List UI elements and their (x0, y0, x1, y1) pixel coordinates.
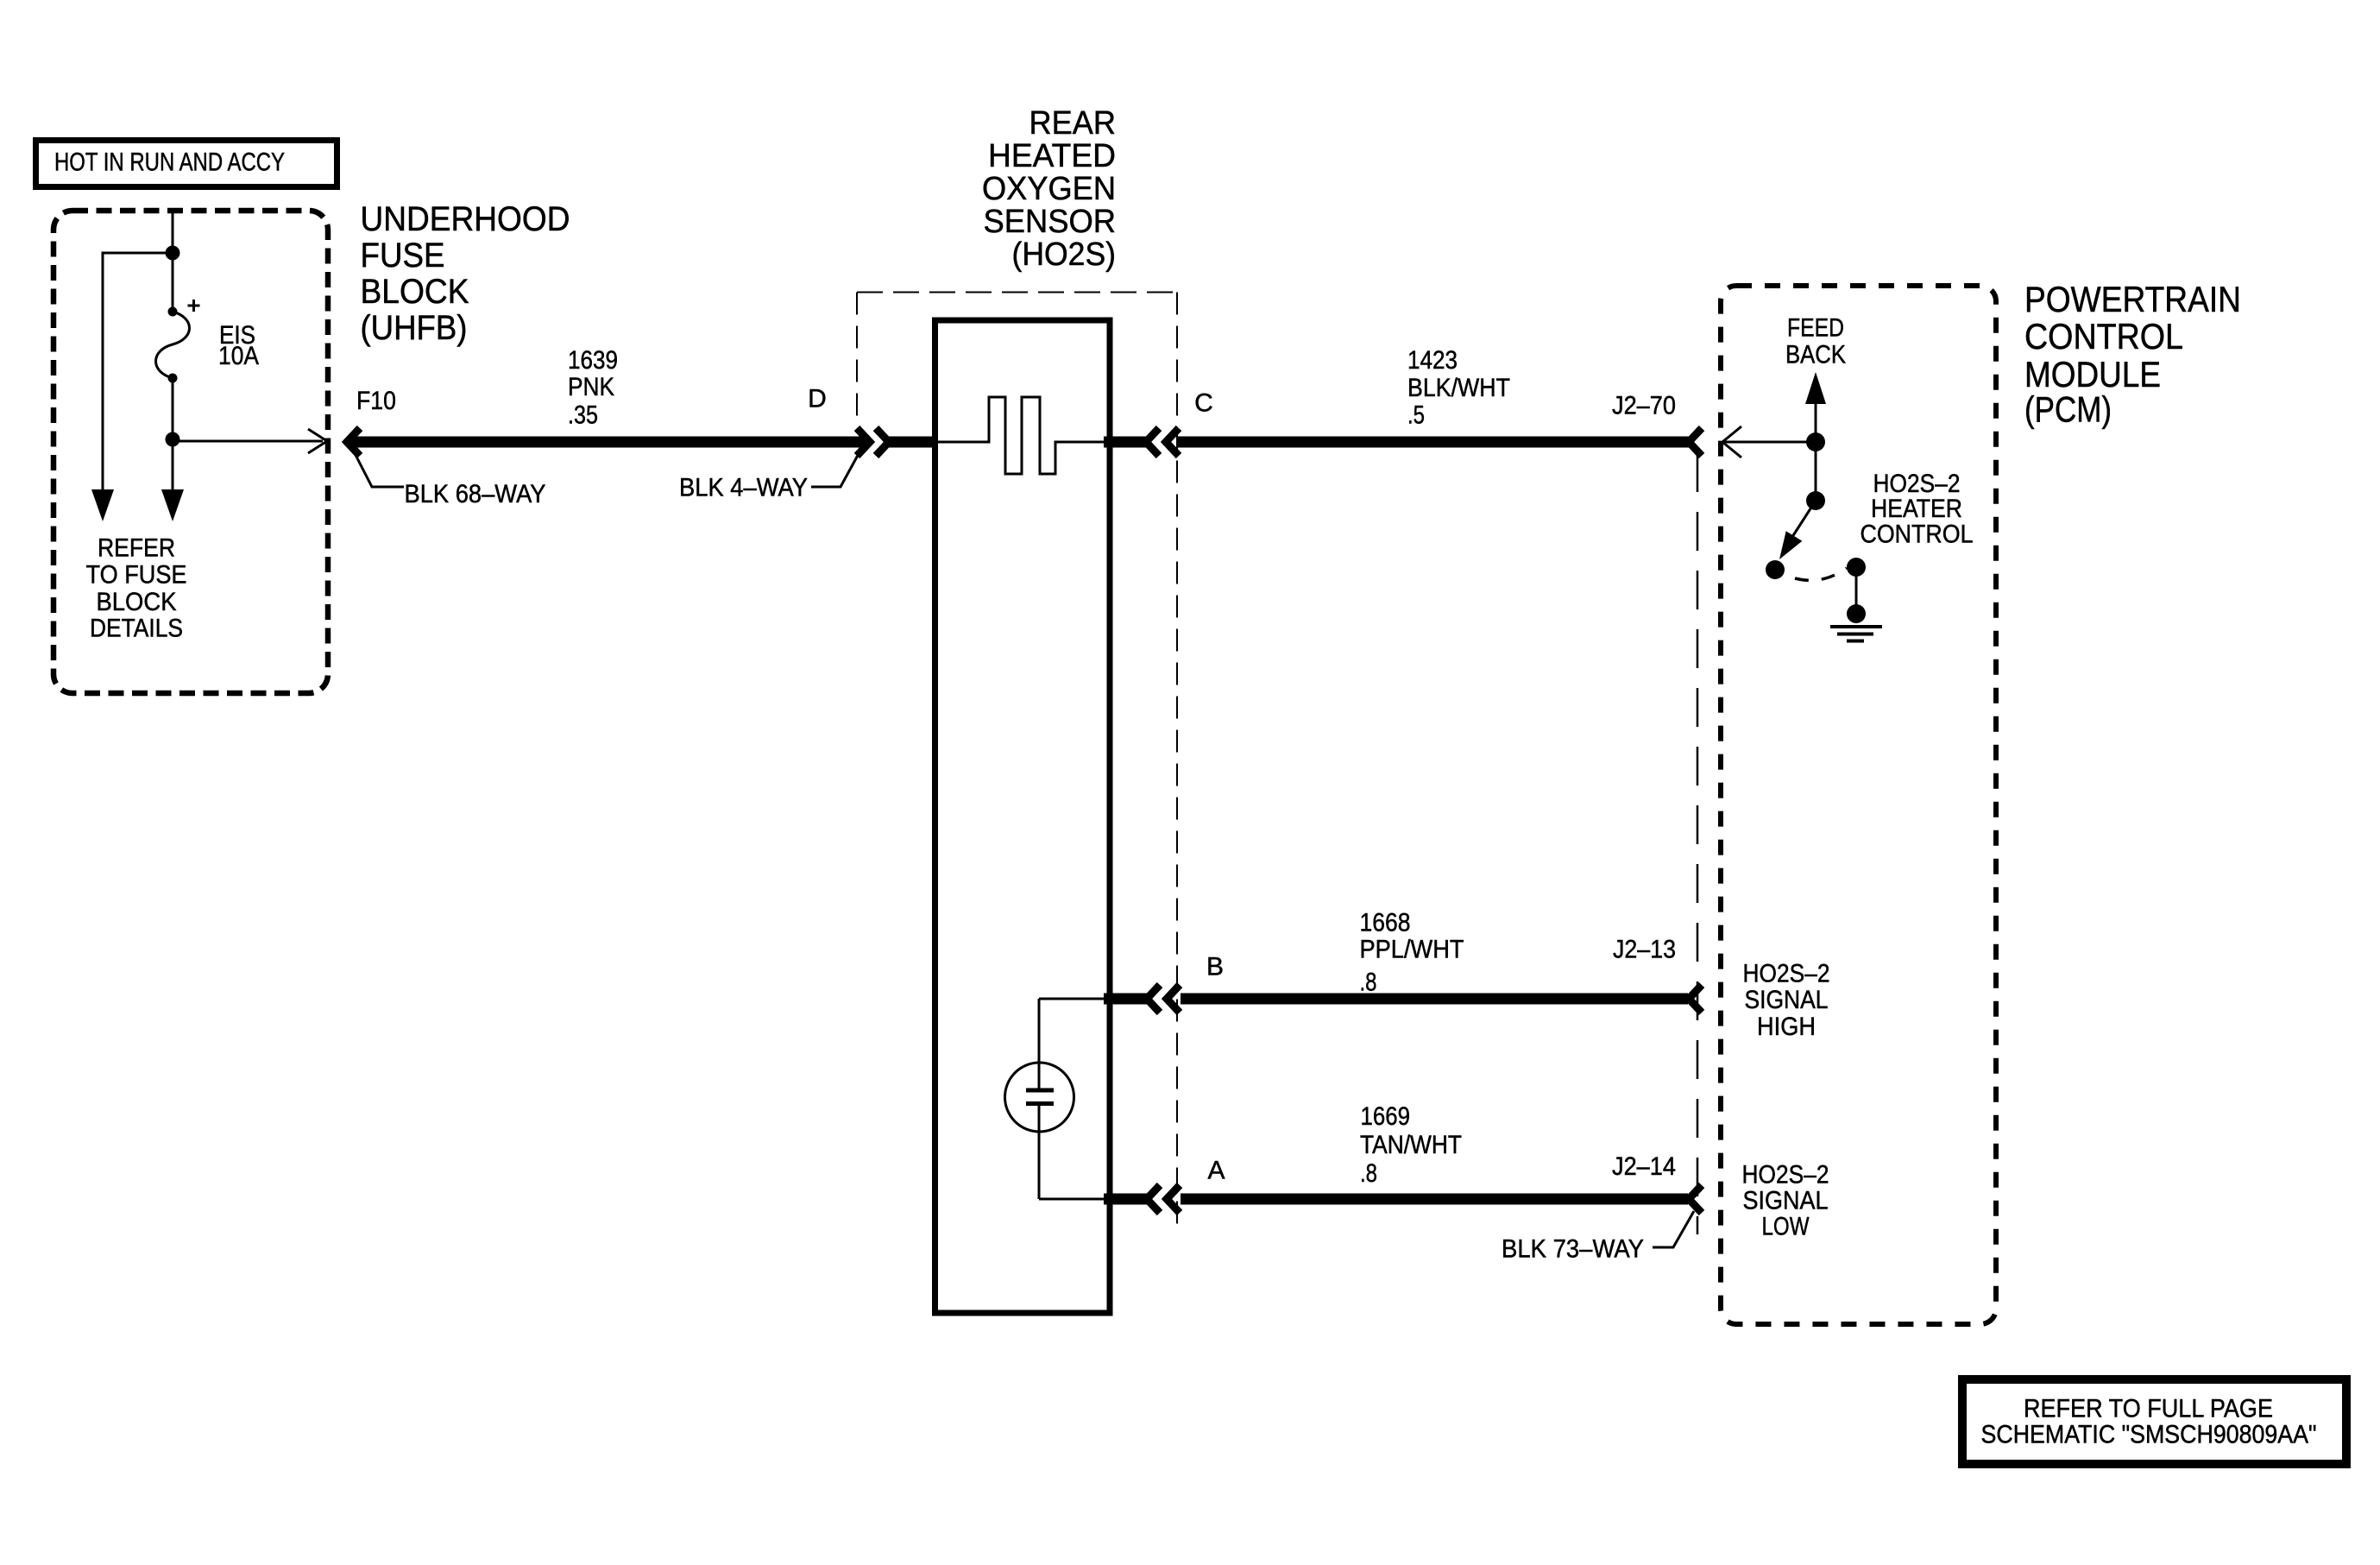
svg-text:FEED: FEED (1787, 314, 1844, 343)
svg-text:HIGH: HIGH (1757, 1013, 1816, 1041)
connector chevron at J2-13 (1689, 985, 1702, 1013)
connector chevrons at C (1146, 428, 1159, 456)
svg-text:POWERTRAIN: POWERTRAIN (2024, 279, 2241, 319)
svg-text:FUSE: FUSE (361, 237, 445, 275)
connector chevron at F10 (347, 428, 360, 456)
label HO2S-2 SIGNAL LOW (1742, 1161, 1829, 1241)
svg-text:J2–14: J2–14 (1612, 1152, 1676, 1181)
svg-text:(HO2S): (HO2S) (1012, 237, 1117, 273)
wire: sensor box to C (1104, 437, 1148, 448)
dashed arc of switch (1795, 568, 1847, 580)
svg-text:HOT IN RUN AND ACCY: HOT IN RUN AND ACCY (54, 148, 285, 177)
note box REFER TO FULL PAGE SCHEMATIC (1962, 1379, 2346, 1464)
svg-text:D: D (808, 385, 827, 413)
wire 1423 BLK/WHT .5 (1176, 437, 1689, 448)
ground (1830, 627, 1882, 641)
PCM dashed box (1721, 286, 1996, 1324)
node: switch pivot (1806, 491, 1825, 510)
svg-text:HEATER: HEATER (1871, 495, 1962, 523)
wire stub B (1104, 994, 1148, 1005)
label 1423 BLK/WHT .5 (1407, 346, 1510, 430)
svg-text:REAR: REAR (1029, 105, 1117, 142)
label HO2S-2 HEATER CONTROL (1861, 470, 1974, 549)
node: feedback junction (1806, 432, 1825, 451)
svg-text:LOW: LOW (1762, 1213, 1810, 1241)
svg-text:BLK 68–WAY: BLK 68–WAY (405, 480, 546, 508)
label 1639 PNK .35 (568, 346, 618, 430)
sensor box HO2S (935, 320, 1111, 1313)
wire: feedback arrow up (1815, 404, 1817, 442)
svg-text:SIGNAL: SIGNAL (1743, 1187, 1829, 1215)
wire D to sensor box (889, 437, 935, 448)
label BLK 4-WAY + leader (679, 451, 860, 502)
wire: junction to output arrow (173, 440, 323, 443)
svg-text:BLK 73–WAY: BLK 73–WAY (1502, 1235, 1644, 1264)
label BLK 68-WAY + leader (356, 455, 546, 508)
wire: battery top to B row (1039, 998, 1107, 1000)
label BLK 73-WAY + leader (1502, 1211, 1694, 1264)
label POWERTRAIN CONTROL MODULE (PCM) (2024, 279, 2241, 430)
label 1668 PPL/WHT .8 (1360, 909, 1464, 997)
node: switch contact right (1847, 558, 1866, 577)
battery symbol in sensor (1005, 999, 1074, 1199)
underhood fuse block dashed box (54, 211, 328, 693)
svg-text:PNK: PNK (568, 373, 614, 401)
wire: battery bottom to A row (1039, 1198, 1107, 1201)
svg-text:BLOCK: BLOCK (97, 588, 177, 616)
svg-text:HO2S–2: HO2S–2 (1743, 960, 1830, 988)
fuse EIS 10A (156, 300, 200, 383)
svg-text:OXYGEN: OXYGEN (982, 171, 1116, 207)
svg-text:10A: 10A (218, 342, 259, 370)
svg-text:.35: .35 (568, 401, 598, 430)
svg-text:C: C (1194, 389, 1213, 418)
svg-text:B: B (1206, 953, 1224, 981)
wire: left branch (103, 253, 173, 491)
node: lower junction (166, 432, 180, 447)
arrow: thin arrow into PCM (1722, 426, 1741, 458)
label REAR HEATED OXYGEN SENSOR (HO2S) (982, 105, 1116, 273)
svg-text:1423: 1423 (1407, 346, 1458, 375)
label UNDERHOOD FUSE BLOCK (UHFB) (361, 200, 570, 347)
connector chevrons at D (857, 428, 870, 456)
svg-text:CONTROL: CONTROL (2024, 316, 2183, 357)
wire 1668 PPL/WHT .8 (1181, 994, 1688, 1005)
label 1669 TAN/WHT .8 (1360, 1102, 1462, 1188)
svg-text:TAN/WHT: TAN/WHT (1360, 1131, 1462, 1159)
HO2S connector dashed boundary (857, 293, 1177, 1235)
svg-text:PPL/WHT: PPL/WHT (1360, 936, 1464, 964)
wire stub A (1104, 1194, 1148, 1205)
label HO2S-2 SIGNAL HIGH (1743, 960, 1830, 1042)
svg-text:J2–13: J2–13 (1613, 936, 1676, 964)
wire 1669 TAN/WHT .8 (1181, 1194, 1688, 1205)
svg-text:1639: 1639 (568, 346, 618, 375)
wire: fuse to lower junction (172, 378, 174, 439)
switch blade HO2S-2 heater control (1791, 501, 1816, 540)
svg-text:A: A (1207, 1157, 1225, 1185)
svg-text:SENSOR: SENSOR (984, 204, 1117, 240)
svg-text:SCHEMATIC "SMSCH90809AA": SCHEMATIC "SMSCH90809AA" (1981, 1421, 2317, 1449)
svg-text:HEATED: HEATED (988, 138, 1116, 174)
svg-text:TO FUSE: TO FUSE (86, 561, 187, 590)
svg-text:(PCM): (PCM) (2024, 389, 2112, 430)
svg-text:1668: 1668 (1360, 909, 1411, 937)
svg-text:.5: .5 (1407, 401, 1425, 430)
svg-text:CONTROL: CONTROL (1861, 521, 1974, 549)
HOT IN RUN AND ACCY header box (36, 141, 337, 187)
arrow: open arrowhead at fuse block border (308, 429, 327, 453)
connector chevrons at B (1147, 985, 1160, 1013)
svg-text:HO2S–2: HO2S–2 (1742, 1161, 1829, 1190)
svg-text:1669: 1669 (1361, 1102, 1411, 1131)
connector chevron at J2-14 (1689, 1185, 1702, 1213)
heater element (935, 397, 1105, 474)
wire to ground (1855, 567, 1858, 614)
wire 1639 PNK .35 (347, 437, 869, 448)
node: junction at top (166, 246, 180, 261)
svg-text:BACK: BACK (1785, 341, 1846, 369)
svg-text:UNDERHOOD: UNDERHOOD (361, 200, 570, 238)
svg-text:J2–70: J2–70 (1612, 392, 1676, 420)
svg-text:BLK/WHT: BLK/WHT (1407, 374, 1510, 402)
svg-text:(UHFB): (UHFB) (361, 309, 468, 347)
label FEED BACK (1785, 314, 1846, 369)
svg-text:DETAILS: DETAILS (90, 615, 183, 643)
svg-text:.8: .8 (1360, 969, 1377, 997)
svg-text:BLOCK: BLOCK (361, 273, 469, 311)
arrow: left refer arrow (91, 489, 114, 521)
svg-text:F10: F10 (356, 387, 396, 415)
svg-text:REFER TO FULL PAGE: REFER TO FULL PAGE (2024, 1395, 2273, 1423)
svg-text:SIGNAL: SIGNAL (1745, 986, 1829, 1014)
wire: feed from top of fuse block (172, 211, 174, 312)
arrow: right refer arrow (161, 489, 184, 521)
wire: junction down to switch (1815, 442, 1817, 496)
node: switch contact left (1766, 560, 1785, 579)
svg-text:.8: .8 (1360, 1159, 1377, 1188)
connector chevrons at A (1147, 1185, 1160, 1213)
label REFER TO FUSE BLOCK DETAILS (86, 534, 187, 643)
PCM connector pin dashed line (1697, 453, 1699, 1234)
connector chevron at J2-70 (1689, 428, 1702, 456)
wire: down branch (172, 439, 174, 491)
svg-text:REFER: REFER (98, 534, 175, 563)
svg-text:BLK 4–WAY: BLK 4–WAY (679, 474, 808, 502)
